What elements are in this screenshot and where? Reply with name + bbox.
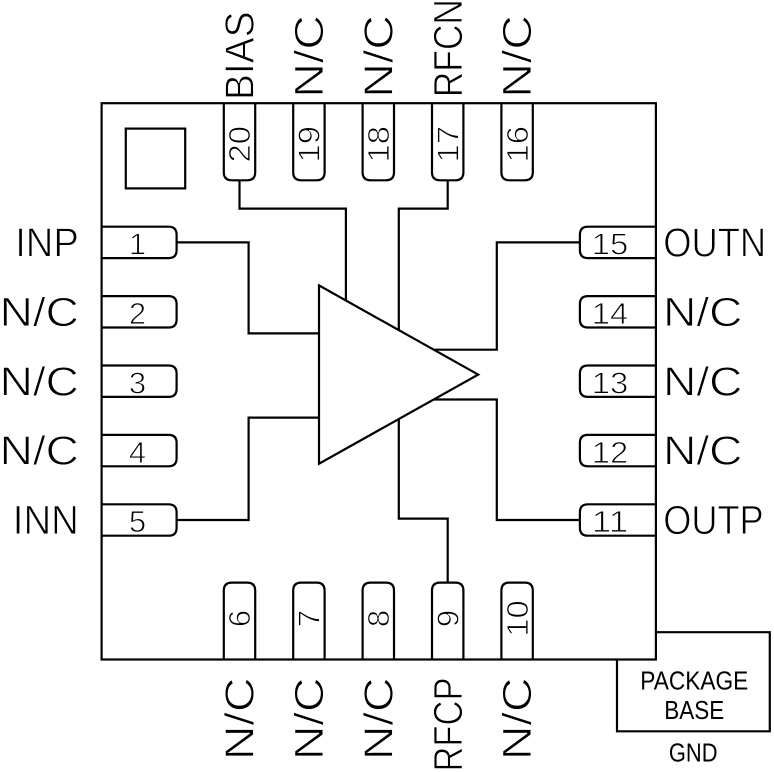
svg-text:18: 18: [361, 126, 396, 163]
svg-text:12: 12: [592, 435, 629, 470]
svg-text:2: 2: [129, 296, 146, 331]
svg-text:3: 3: [129, 365, 146, 400]
svg-text:N/C: N/C: [494, 15, 540, 98]
svg-text:4: 4: [129, 435, 146, 470]
svg-text:11: 11: [592, 504, 629, 539]
svg-text:N/C: N/C: [0, 428, 79, 474]
svg-text:20: 20: [222, 126, 257, 163]
svg-text:N/C: N/C: [663, 358, 742, 404]
svg-text:6: 6: [222, 610, 257, 627]
svg-text:5: 5: [129, 504, 146, 539]
svg-text:OUTP: OUTP: [663, 497, 764, 543]
svg-text:BIAS: BIAS: [217, 12, 263, 101]
svg-text:BASE: BASE: [664, 697, 724, 725]
svg-text:N/C: N/C: [494, 678, 540, 761]
svg-text:N/C: N/C: [0, 358, 79, 404]
svg-text:PACKAGE: PACKAGE: [640, 668, 748, 696]
svg-text:N/C: N/C: [286, 15, 332, 98]
svg-text:17: 17: [430, 126, 465, 163]
svg-text:INN: INN: [13, 497, 79, 543]
svg-text:RFCP: RFCP: [425, 678, 471, 772]
svg-text:7: 7: [292, 610, 327, 627]
svg-text:13: 13: [592, 365, 629, 400]
svg-text:N/C: N/C: [355, 15, 401, 98]
svg-text:10: 10: [500, 600, 535, 637]
svg-text:1: 1: [129, 227, 146, 262]
svg-text:INP: INP: [15, 220, 79, 266]
svg-text:N/C: N/C: [286, 678, 332, 761]
svg-text:19: 19: [292, 126, 327, 163]
svg-text:N/C: N/C: [217, 678, 263, 761]
svg-text:RFCN: RFCN: [425, 0, 471, 97]
svg-text:16: 16: [500, 126, 535, 163]
svg-text:15: 15: [592, 227, 629, 262]
svg-text:OUTN: OUTN: [663, 220, 766, 266]
svg-text:N/C: N/C: [663, 289, 742, 335]
svg-text:GND: GND: [669, 740, 718, 768]
svg-text:8: 8: [361, 610, 396, 627]
svg-text:N/C: N/C: [663, 428, 742, 474]
svg-text:N/C: N/C: [0, 289, 79, 335]
svg-text:9: 9: [430, 610, 465, 627]
svg-text:14: 14: [592, 296, 629, 331]
svg-text:N/C: N/C: [355, 678, 401, 761]
